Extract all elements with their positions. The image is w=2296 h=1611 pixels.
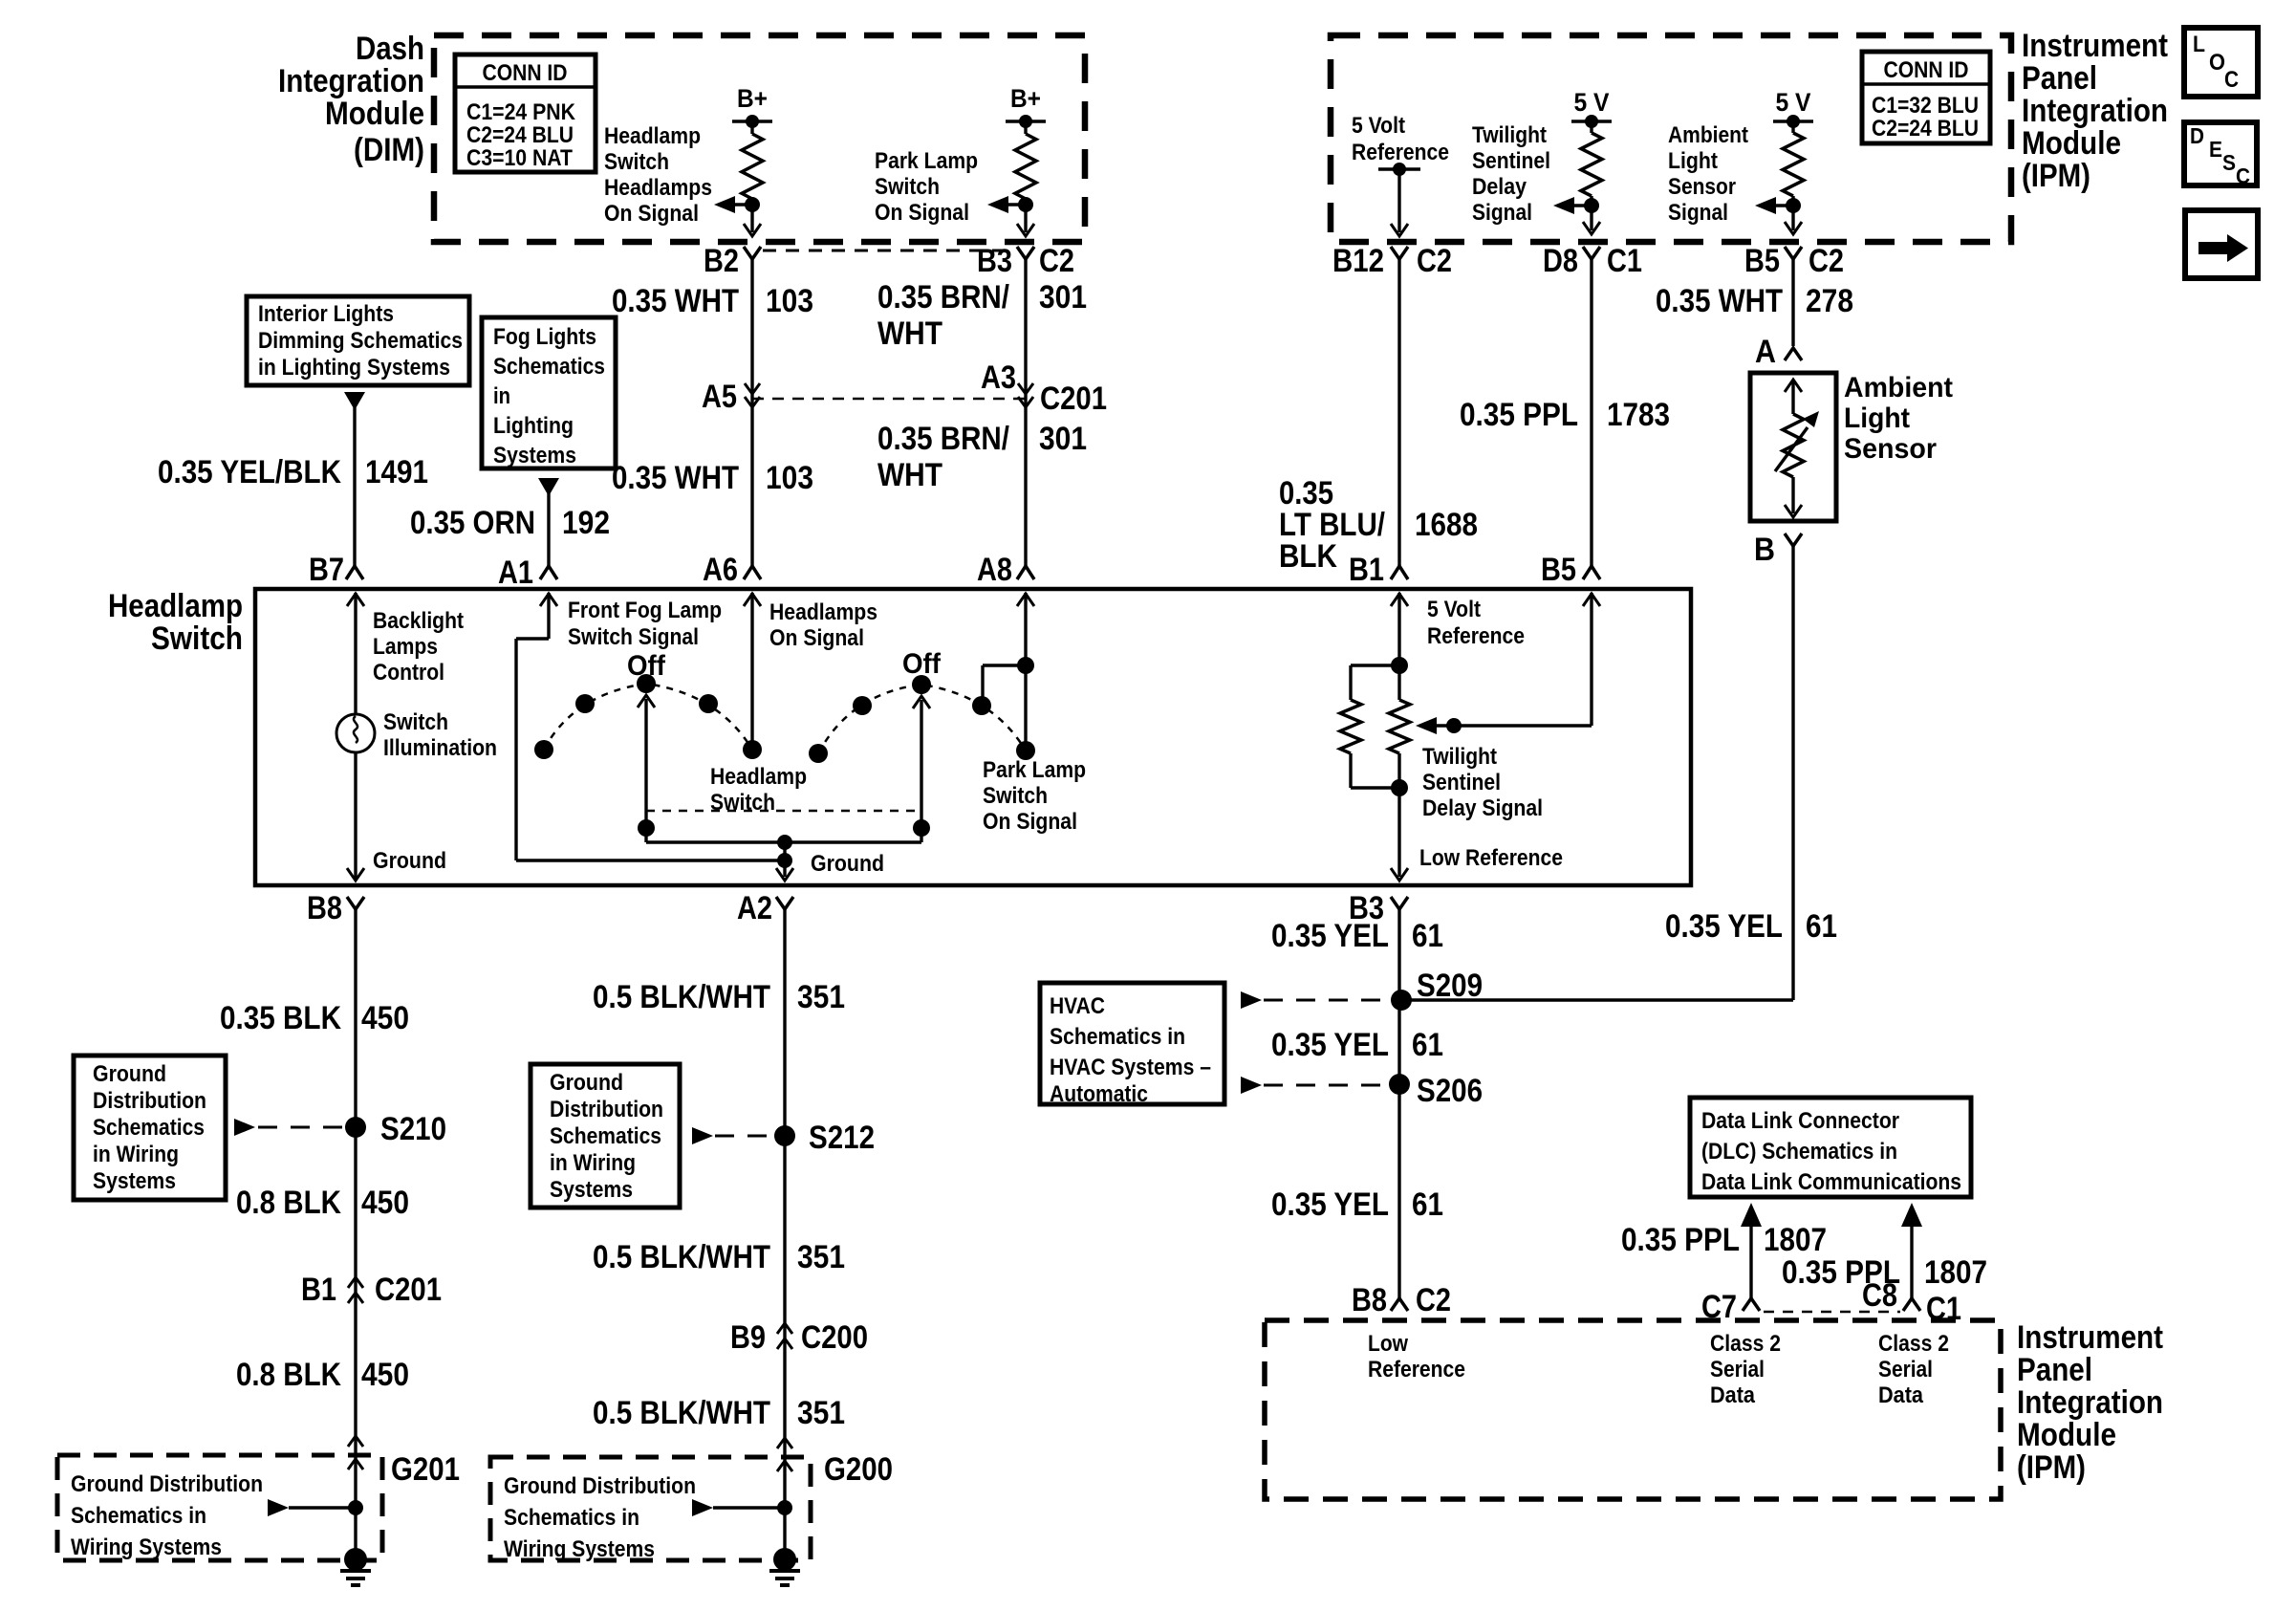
svg-text:Schematics in: Schematics in [1050, 1024, 1185, 1050]
svg-text:Switch: Switch [604, 149, 669, 175]
svg-text:C1=32 BLU: C1=32 BLU [1872, 93, 1979, 119]
svg-text:S206: S206 [1417, 1073, 1483, 1109]
svg-text:HVAC Systems –: HVAC Systems – [1050, 1055, 1211, 1080]
svg-text:On Signal: On Signal [769, 625, 864, 651]
svg-text:Ground Distribution: Ground Distribution [71, 1471, 263, 1497]
svg-text:0.35 PPL: 0.35 PPL [1460, 397, 1578, 433]
svg-text:B+: B+ [737, 84, 768, 113]
svg-text:A5: A5 [702, 379, 737, 415]
svg-text:61: 61 [1412, 1186, 1443, 1223]
svg-text:Backlight: Backlight [373, 608, 464, 634]
svg-text:S212: S212 [809, 1120, 875, 1156]
svg-text:B12: B12 [1332, 243, 1384, 279]
svg-text:Interior Lights: Interior Lights [258, 301, 394, 327]
svg-text:Delay: Delay [1472, 174, 1527, 200]
svg-text:0.35 WHT: 0.35 WHT [612, 460, 739, 496]
svg-text:BLK: BLK [1279, 538, 1337, 575]
svg-text:Sentinel: Sentinel [1472, 148, 1550, 174]
svg-text:Systems: Systems [493, 443, 576, 468]
svg-text:C2=24 BLU: C2=24 BLU [1872, 116, 1979, 142]
svg-text:450: 450 [361, 1185, 409, 1221]
svg-text:1688: 1688 [1415, 507, 1478, 543]
svg-text:Schematics in: Schematics in [71, 1503, 206, 1529]
svg-text:0.35 BRN/: 0.35 BRN/ [877, 279, 1009, 316]
svg-text:O: O [2209, 50, 2225, 76]
svg-text:278: 278 [1806, 283, 1853, 319]
svg-text:Serial: Serial [1710, 1357, 1765, 1382]
svg-text:1807: 1807 [1764, 1222, 1827, 1258]
svg-text:G200: G200 [824, 1451, 893, 1488]
svg-text:5 Volt: 5 Volt [1427, 597, 1481, 622]
svg-text:B8: B8 [1352, 1282, 1387, 1318]
svg-text:Signal: Signal [1472, 200, 1532, 226]
svg-text:Ground: Ground [373, 848, 446, 874]
svg-text:0.35 WHT: 0.35 WHT [1656, 283, 1783, 319]
svg-text:Wiring Systems: Wiring Systems [71, 1535, 222, 1560]
svg-text:0.5 BLK/WHT: 0.5 BLK/WHT [593, 1239, 770, 1275]
svg-text:Data: Data [1710, 1382, 1756, 1408]
svg-text:S: S [2222, 150, 2236, 175]
svg-text:Fog Lights: Fog Lights [493, 324, 596, 350]
svg-text:0.35 YEL: 0.35 YEL [1271, 1027, 1389, 1063]
svg-text:A1: A1 [498, 555, 533, 591]
svg-text:61: 61 [1806, 908, 1837, 945]
svg-text:A6: A6 [703, 552, 738, 588]
svg-text:On Signal: On Signal [875, 200, 969, 226]
svg-text:G201: G201 [391, 1451, 460, 1488]
svg-text:351: 351 [797, 1395, 845, 1431]
svg-text:C: C [2236, 163, 2250, 188]
svg-text:0.35 BLK: 0.35 BLK [220, 1000, 341, 1036]
svg-text:Serial: Serial [1878, 1357, 1933, 1382]
svg-text:103: 103 [766, 460, 813, 496]
svg-text:Low Reference: Low Reference [1419, 845, 1563, 871]
svg-text:Distribution: Distribution [550, 1097, 663, 1122]
svg-text:Light: Light [1668, 148, 1718, 174]
svg-text:B1: B1 [1349, 552, 1384, 588]
svg-text:B5: B5 [1541, 552, 1576, 588]
svg-text:Headlamp: Headlamp [108, 588, 243, 624]
svg-text:Twilight: Twilight [1422, 744, 1497, 770]
svg-text:C1: C1 [1926, 1291, 1961, 1327]
svg-text:Distribution: Distribution [93, 1088, 206, 1114]
svg-text:Systems: Systems [93, 1168, 176, 1194]
svg-text:C2: C2 [1809, 243, 1844, 279]
svg-text:Class 2: Class 2 [1878, 1331, 1949, 1357]
svg-text:C3=10 NAT: C3=10 NAT [466, 145, 573, 171]
svg-text:450: 450 [361, 1357, 409, 1393]
svg-text:Illumination: Illumination [383, 735, 497, 761]
svg-text:Light: Light [1844, 403, 1910, 434]
svg-text:Data: Data [1878, 1382, 1924, 1408]
svg-text:1807: 1807 [1924, 1254, 1987, 1291]
svg-text:WHT: WHT [877, 457, 942, 493]
svg-text:Integration: Integration [2022, 93, 2168, 129]
svg-text:0.35 WHT: 0.35 WHT [612, 283, 739, 319]
svg-text:0.35 YEL: 0.35 YEL [1271, 918, 1389, 954]
svg-text:E: E [2209, 137, 2222, 162]
svg-text:Module: Module [2017, 1417, 2116, 1453]
svg-text:Ground Distribution: Ground Distribution [504, 1473, 696, 1499]
svg-text:Schematics: Schematics [493, 354, 605, 380]
svg-text:Signal: Signal [1668, 200, 1728, 226]
svg-text:Reference: Reference [1352, 140, 1449, 165]
svg-text:0.35 YEL: 0.35 YEL [1665, 908, 1783, 945]
svg-text:450: 450 [361, 1000, 409, 1036]
svg-text:301: 301 [1039, 279, 1087, 316]
svg-text:Lighting: Lighting [493, 413, 574, 439]
svg-text:Dimming Schematics: Dimming Schematics [258, 328, 463, 354]
svg-text:A8: A8 [977, 552, 1012, 588]
svg-text:61: 61 [1412, 1027, 1443, 1063]
svg-text:1491: 1491 [365, 454, 428, 490]
svg-text:Front Fog Lamp: Front Fog Lamp [568, 598, 722, 623]
svg-text:103: 103 [766, 283, 813, 319]
svg-text:0.35 YEL: 0.35 YEL [1271, 1186, 1389, 1223]
svg-text:0.8 BLK: 0.8 BLK [236, 1357, 341, 1393]
svg-text:Systems: Systems [550, 1177, 633, 1203]
svg-text:351: 351 [797, 1239, 845, 1275]
svg-text:Ambient: Ambient [1844, 372, 1953, 403]
svg-text:C2=24 BLU: C2=24 BLU [466, 122, 574, 148]
svg-text:Data Link Connector: Data Link Connector [1701, 1108, 1899, 1134]
svg-text:Ground: Ground [93, 1061, 166, 1087]
svg-text:C200: C200 [801, 1319, 868, 1356]
svg-text:On Signal: On Signal [983, 809, 1077, 835]
svg-text:C201: C201 [375, 1272, 442, 1308]
svg-text:192: 192 [562, 505, 610, 541]
svg-text:B7: B7 [309, 552, 344, 588]
svg-text:B5: B5 [1744, 243, 1780, 279]
svg-text:D: D [2190, 123, 2204, 148]
svg-text:(DIM): (DIM) [354, 132, 424, 168]
svg-text:Reference: Reference [1368, 1357, 1465, 1382]
svg-text:C: C [2224, 67, 2239, 93]
svg-text:Ground: Ground [550, 1070, 623, 1096]
svg-text:Schematics: Schematics [93, 1115, 205, 1141]
svg-text:C1=24 PNK: C1=24 PNK [466, 99, 576, 125]
svg-text:A3: A3 [981, 359, 1016, 396]
svg-text:5 V: 5 V [1776, 88, 1811, 117]
svg-text:L: L [2193, 32, 2205, 57]
svg-text:5 V: 5 V [1574, 88, 1610, 117]
svg-text:Delay Signal: Delay Signal [1422, 795, 1543, 821]
svg-text:CONN ID: CONN ID [1884, 57, 1969, 83]
svg-text:B2: B2 [704, 243, 739, 279]
svg-text:in Wiring: in Wiring [550, 1150, 636, 1176]
svg-text:0.35 ORN: 0.35 ORN [410, 505, 535, 541]
svg-text:Lamps: Lamps [373, 634, 438, 660]
svg-text:B+: B+ [1010, 84, 1041, 113]
svg-text:Schematics in: Schematics in [504, 1505, 639, 1531]
svg-text:0.8 BLK: 0.8 BLK [236, 1185, 341, 1221]
svg-text:B8: B8 [307, 890, 342, 926]
svg-text:Panel: Panel [2022, 60, 2097, 97]
svg-text:(IPM): (IPM) [2017, 1449, 2086, 1486]
svg-text:C2: C2 [1416, 1282, 1451, 1318]
svg-text:0.35 BRN/: 0.35 BRN/ [877, 421, 1009, 457]
svg-text:C1: C1 [1607, 243, 1642, 279]
svg-text:B9: B9 [730, 1319, 766, 1356]
svg-text:Sensor: Sensor [1668, 174, 1736, 200]
svg-text:1783: 1783 [1607, 397, 1670, 433]
svg-text:Headlamps: Headlamps [604, 175, 712, 201]
svg-text:Ground: Ground [811, 851, 884, 877]
svg-text:Headlamps: Headlamps [769, 599, 877, 625]
svg-text:Schematics: Schematics [550, 1123, 661, 1149]
svg-text:CONN ID: CONN ID [483, 60, 568, 86]
svg-text:Control: Control [373, 660, 444, 686]
svg-text:Low: Low [1368, 1331, 1408, 1357]
svg-text:Headlamp: Headlamp [604, 123, 701, 149]
svg-text:in Wiring: in Wiring [93, 1142, 179, 1167]
svg-text:in: in [493, 383, 510, 409]
svg-text:5 Volt: 5 Volt [1352, 113, 1405, 139]
svg-text:Module: Module [325, 96, 424, 132]
svg-text:(IPM): (IPM) [2022, 158, 2090, 194]
svg-text:Integration: Integration [278, 63, 424, 99]
svg-text:Reference: Reference [1427, 623, 1525, 649]
svg-text:Switch: Switch [383, 709, 448, 735]
svg-text:Panel: Panel [2017, 1352, 2092, 1388]
svg-text:Switch: Switch [875, 174, 940, 200]
svg-text:WHT: WHT [877, 316, 942, 352]
svg-text:On Signal: On Signal [604, 201, 699, 227]
svg-text:Sentinel: Sentinel [1422, 770, 1501, 795]
svg-text:B3: B3 [977, 243, 1012, 279]
svg-text:in Lighting Systems: in Lighting Systems [258, 355, 450, 381]
svg-text:(DLC) Schematics in: (DLC) Schematics in [1701, 1139, 1897, 1165]
svg-text:Integration: Integration [2017, 1384, 2163, 1421]
svg-text:Class 2: Class 2 [1710, 1331, 1781, 1357]
svg-text:B1: B1 [301, 1272, 336, 1308]
svg-text:C7: C7 [1701, 1289, 1737, 1325]
svg-text:0.35 PPL: 0.35 PPL [1621, 1222, 1740, 1258]
svg-text:61: 61 [1412, 918, 1443, 954]
svg-text:0.5 BLK/WHT: 0.5 BLK/WHT [593, 979, 770, 1015]
svg-text:Module: Module [2022, 125, 2121, 162]
svg-text:Park Lamp: Park Lamp [983, 757, 1086, 783]
svg-text:Ambient: Ambient [1668, 122, 1748, 148]
svg-text:C201: C201 [1040, 381, 1107, 417]
svg-text:301: 301 [1039, 421, 1087, 457]
svg-text:D8: D8 [1543, 243, 1578, 279]
svg-text:0.5 BLK/WHT: 0.5 BLK/WHT [593, 1395, 770, 1431]
svg-text:HVAC: HVAC [1050, 993, 1105, 1019]
svg-text:B: B [1754, 532, 1775, 568]
svg-text:Switch Signal: Switch Signal [568, 624, 699, 650]
svg-text:C8: C8 [1862, 1277, 1897, 1314]
svg-text:Instrument: Instrument [2022, 28, 2168, 64]
svg-text:Instrument: Instrument [2017, 1319, 2163, 1356]
svg-text:Dash: Dash [356, 31, 424, 67]
svg-text:Switch: Switch [983, 783, 1048, 809]
svg-text:A2: A2 [737, 890, 772, 926]
svg-text:Sensor: Sensor [1844, 433, 1937, 465]
svg-text:A: A [1755, 334, 1776, 370]
svg-text:0.35 YEL/BLK: 0.35 YEL/BLK [158, 454, 341, 490]
svg-text:351: 351 [797, 979, 845, 1015]
svg-text:C2: C2 [1039, 243, 1074, 279]
svg-text:S209: S209 [1417, 968, 1483, 1004]
svg-text:Data Link Communications: Data Link Communications [1701, 1169, 1961, 1195]
svg-text:C2: C2 [1417, 243, 1452, 279]
svg-text:Twilight: Twilight [1472, 122, 1547, 148]
svg-text:Automatic: Automatic [1050, 1081, 1148, 1107]
svg-text:Park Lamp: Park Lamp [875, 148, 978, 174]
svg-text:Wiring Systems: Wiring Systems [504, 1536, 655, 1562]
svg-text:Switch: Switch [151, 620, 243, 657]
svg-text:Headlamp: Headlamp [710, 764, 807, 790]
svg-text:S210: S210 [380, 1111, 446, 1147]
